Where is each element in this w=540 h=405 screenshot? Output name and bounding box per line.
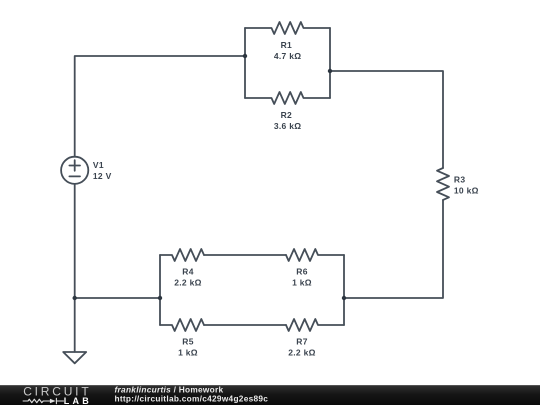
resistor R6 xyxy=(286,249,344,261)
svg-text:4.7 kΩ: 4.7 kΩ xyxy=(274,51,302,61)
resistor R1 xyxy=(245,22,330,34)
svg-text:R2: R2 xyxy=(281,110,292,120)
svg-text:2.2 kΩ: 2.2 kΩ xyxy=(288,348,316,358)
resistor R7 xyxy=(286,319,344,331)
wire: V1 top to top rail xyxy=(75,56,245,157)
svg-text:R3: R3 xyxy=(454,174,465,184)
svg-text:R7: R7 xyxy=(296,336,307,346)
node: V1 bottom junction xyxy=(73,296,77,300)
wire: top branch middle xyxy=(204,254,286,256)
node: bottom network right xyxy=(342,296,346,300)
svg-text:2.2 kΩ: 2.2 kΩ xyxy=(174,278,202,288)
svg-text:10 kΩ: 10 kΩ xyxy=(454,185,479,195)
wire: V1 bottom node to left rail xyxy=(75,297,160,299)
wire: bottom branch middle xyxy=(204,324,286,326)
svg-text:1 kΩ: 1 kΩ xyxy=(292,278,312,288)
node: bottom network left xyxy=(158,296,162,300)
svg-text:http://circuitlab.com/c429w4g2: http://circuitlab.com/c429w4g2es89c xyxy=(115,393,269,403)
ground xyxy=(63,352,86,363)
footer bar xyxy=(0,385,540,405)
wire: parallel block right rail xyxy=(329,28,331,98)
svg-text:1 kΩ: 1 kΩ xyxy=(178,348,198,358)
wire: V1 bottom to ground xyxy=(74,184,76,352)
wire: right rail to R3 xyxy=(330,71,443,168)
svg-text:R5: R5 xyxy=(182,336,193,346)
svg-text:3.6 kΩ: 3.6 kΩ xyxy=(274,121,302,131)
CircuitLab logo xyxy=(23,385,92,405)
svg-text:R1: R1 xyxy=(281,40,292,50)
wire: R3 bottom to bottom network xyxy=(344,200,443,298)
resistor R5 xyxy=(160,319,204,331)
svg-text:12 V: 12 V xyxy=(93,171,112,181)
wire: bottom network left rail xyxy=(159,255,161,325)
footer text xyxy=(115,384,269,403)
svg-text:R6: R6 xyxy=(296,266,307,276)
node: top rail / parallel left xyxy=(243,54,247,58)
voltage source V1 xyxy=(61,157,88,184)
wire: bottom network right rail xyxy=(343,255,345,325)
svg-text:R4: R4 xyxy=(182,266,193,276)
resistor R2 xyxy=(245,92,330,104)
wire: parallel block left rail xyxy=(244,28,246,98)
svg-text:V1: V1 xyxy=(93,160,104,170)
node: parallel right xyxy=(328,69,332,73)
resistor R3 xyxy=(437,168,449,200)
resistor R4 xyxy=(160,249,204,261)
svg-text:LAB: LAB xyxy=(64,396,92,405)
